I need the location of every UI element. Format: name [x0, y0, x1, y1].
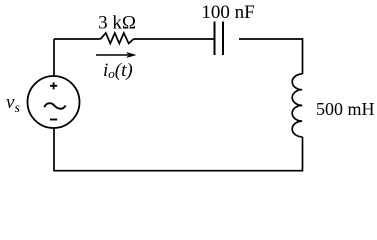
svg-text:io(t): io(t)	[103, 60, 133, 81]
svg-text:500 mH: 500 mH	[316, 99, 375, 119]
svg-text:100 nF: 100 nF	[201, 2, 254, 23]
svg-text:3 kΩ: 3 kΩ	[98, 12, 136, 33]
